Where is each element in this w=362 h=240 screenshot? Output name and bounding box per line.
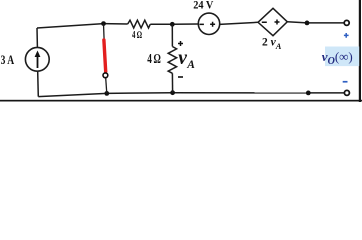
wire dependent source to node C bbox=[287, 22, 307, 23]
polarity plus for vA bbox=[178, 41, 183, 46]
polarity minus for vA bbox=[178, 76, 183, 78]
wire resistor R2 branch lower bbox=[171, 73, 173, 92]
wire switch branch upper stub bbox=[103, 24, 106, 43]
svg-text:4 Ω: 4 Ω bbox=[132, 30, 142, 41]
node E bottom junction dot bbox=[170, 90, 175, 95]
switch S1 red closed lever bbox=[104, 40, 106, 72]
terminal top open circle bbox=[344, 20, 349, 25]
current source I1 circle bbox=[25, 47, 49, 71]
wire bottom to output terminal bbox=[308, 92, 344, 94]
node F bottom junction dot bbox=[306, 91, 311, 96]
polarity plus for vO (blue) bbox=[344, 33, 349, 38]
resistor R2 4ohm vertical zigzag bbox=[168, 47, 176, 74]
wire bottom-left horizontal bbox=[38, 93, 107, 96]
svg-text:3 A: 3 A bbox=[1, 53, 15, 67]
E1 plus sign bbox=[275, 20, 280, 25]
wire top-left horizontal bbox=[37, 24, 104, 28]
wire 24V source to dependent source bbox=[220, 22, 258, 24]
svg-text:4 Ω: 4 Ω bbox=[147, 51, 161, 66]
voltage source V1 24V circle bbox=[198, 13, 219, 34]
wire top middle (node A to resistor) bbox=[104, 23, 128, 25]
terminal bottom open circle bbox=[344, 90, 349, 95]
switch S1 contact open circle bbox=[103, 73, 108, 78]
dependent source E1 diamond bbox=[258, 8, 287, 35]
node D bottom junction dot bbox=[104, 91, 109, 96]
wire bottom right of resistor bbox=[173, 92, 309, 94]
V1 minus sign bbox=[200, 24, 204, 26]
highlight box for vO bbox=[325, 47, 359, 67]
polarity minus for vO (blue) bbox=[343, 81, 348, 83]
wire left branch vertical bbox=[36, 28, 38, 47]
node C top junction dot bbox=[305, 21, 310, 26]
wire node C to output terminal top bbox=[307, 22, 344, 24]
resistor R1 4ohm horizontal zigzag bbox=[128, 20, 151, 28]
wire current source to bottom-left corner bbox=[37, 72, 40, 97]
node A top junction dot bbox=[101, 21, 106, 26]
V1 plus sign bbox=[210, 22, 215, 27]
I1 arrow up bbox=[37, 55, 39, 68]
E1 minus sign bbox=[262, 22, 267, 24]
wire resistor to node B bbox=[150, 23, 172, 25]
wire bottom middle bbox=[107, 92, 173, 95]
wire switch branch lower stub bbox=[106, 78, 107, 93]
svg-text:24 V: 24 V bbox=[193, 0, 214, 12]
wire resistor R2 branch upper bbox=[171, 24, 173, 46]
node B top junction dot bbox=[170, 22, 175, 27]
wire node B to 24V source bbox=[172, 23, 198, 25]
